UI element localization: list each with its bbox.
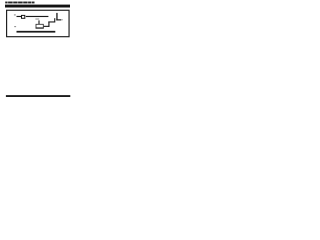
node OUT (faint wire end) — [61, 19, 63, 20]
wire — [17, 31, 56, 33]
resistor R1 — [22, 15, 25, 18]
switch S1 fixed contact — [54, 18, 55, 22]
relay coil K1 — [36, 24, 43, 28]
header rule (black bar) — [5, 5, 70, 8]
wire — [38, 20, 39, 24]
wire — [48, 21, 55, 22]
wire — [26, 16, 49, 17]
wire — [48, 22, 49, 27]
node N (lower input terminal label, faint) — [14, 26, 16, 27]
wire — [44, 26, 50, 27]
page header text (illegible at scale) — [5, 2, 34, 4]
label K1 (faint designator above coil) — [35, 18, 39, 19]
node L (upper input terminal label, faint) — [14, 14, 16, 15]
switch S1 lever — [56, 13, 57, 21]
wire — [17, 16, 22, 17]
caption bar (dense small text rendered as rule) — [6, 95, 70, 97]
